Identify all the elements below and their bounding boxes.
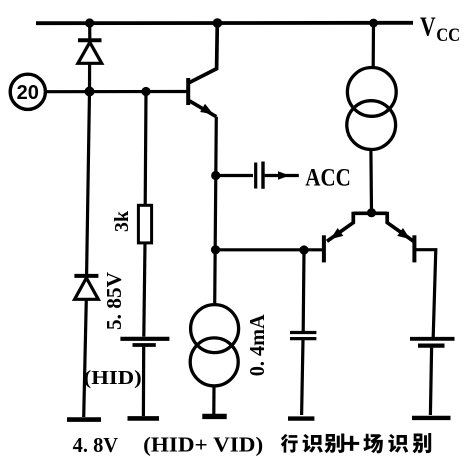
wire D1 to D2 bbox=[87, 63, 90, 274]
label char shi bbox=[303, 434, 323, 453]
node junction C2 branch bbox=[299, 245, 308, 254]
wire rail to current source I2 bbox=[372, 23, 375, 68]
node junction diff base tap bbox=[211, 245, 220, 254]
wire C1 to ACC with arrow bbox=[265, 171, 299, 179]
transistor Q3 emitter with arrow bbox=[387, 212, 413, 242]
node junction emitters bbox=[367, 208, 376, 217]
terminal pin 20 bbox=[10, 74, 45, 109]
svg-text:(HID): (HID) bbox=[84, 368, 142, 389]
resistor R1 3k bbox=[138, 205, 151, 243]
svg-text:V: V bbox=[420, 12, 436, 42]
current source I1 0.4mA bbox=[190, 305, 238, 386]
terminal bar bottom left bbox=[67, 417, 101, 422]
label char bie bbox=[325, 433, 345, 453]
transistor Q2 base bar bbox=[322, 235, 326, 262]
terminal bar below C2 bbox=[288, 416, 314, 420]
node junction at left column bbox=[85, 87, 95, 97]
svg-text:ACC: ACC bbox=[305, 165, 351, 192]
svg-text:20: 20 bbox=[17, 82, 39, 104]
capacitor C1 bbox=[256, 162, 263, 189]
wire to capacitor C1 bbox=[216, 174, 253, 177]
transistor Q2 emitter with arrow bbox=[327, 212, 353, 242]
wire C2 to bottom terminal bbox=[302, 340, 303, 415]
svg-text:5. 85V: 5. 85V bbox=[102, 272, 126, 330]
wire diff base tap to Q2 bbox=[216, 248, 323, 251]
battery B2 bbox=[410, 339, 455, 346]
wire node to capacitor C2 bbox=[302, 250, 306, 331]
svg-text:(HID+ VID): (HID+ VID) bbox=[143, 433, 263, 457]
label char shi 2 bbox=[388, 434, 408, 453]
svg-text:4. 8V: 4. 8V bbox=[73, 433, 119, 457]
wire I1 to ground bar bbox=[212, 386, 215, 414]
wire Q1 emitter down to current source I1 bbox=[215, 117, 217, 305]
label char chang bbox=[363, 434, 383, 454]
svg-text:3k: 3k bbox=[111, 210, 133, 232]
wire Q3 to battery B2 bbox=[416, 250, 436, 337]
node junction rail-current source bbox=[369, 19, 378, 28]
label char bie 2 bbox=[413, 433, 432, 453]
wire D2 to bottom terminal bbox=[84, 299, 87, 417]
terminal bar below I1 bbox=[202, 414, 226, 419]
wire base node down to resistor R1 bbox=[144, 92, 148, 206]
transistor Q1 collector bbox=[189, 23, 218, 83]
svg-text:0. 4mA: 0. 4mA bbox=[245, 314, 269, 377]
label plus sign bbox=[344, 436, 359, 451]
capacitor C2 bbox=[290, 333, 316, 339]
diff pair emitter bar bbox=[353, 211, 387, 215]
wire R1 to battery B1 bbox=[144, 243, 145, 337]
battery B1 5.85V bbox=[120, 339, 169, 345]
diode D2 bbox=[74, 276, 98, 299]
current source I2 bbox=[347, 68, 396, 150]
diode D1 bbox=[78, 40, 102, 63]
transistor Q1 base bar bbox=[186, 78, 190, 105]
terminal bar bottom battery bbox=[128, 416, 160, 421]
transistor Q3 base bar bbox=[412, 235, 416, 262]
wire B2 to bottom terminal bbox=[430, 348, 431, 415]
wire pin20 to base node bbox=[46, 90, 187, 93]
transistor Q1 emitter with arrow bbox=[189, 100, 217, 116]
label VCC bbox=[420, 12, 460, 47]
wire VCC top rail bbox=[36, 21, 413, 25]
wire rail to diode D1 bbox=[88, 23, 91, 39]
svg-text:CC: CC bbox=[436, 25, 460, 46]
node junction ACC tap bbox=[211, 171, 220, 180]
terminal bar below B2 bbox=[412, 416, 451, 420]
wire B1 to bottom terminal bbox=[142, 347, 146, 416]
node junction rail-left column bbox=[85, 18, 94, 27]
wire I2 to diff pair emitters bbox=[369, 149, 373, 212]
node junction at resistor branch bbox=[141, 87, 150, 96]
node junction rail-collector bbox=[213, 18, 223, 28]
label hang-shibie (line ident) char xing bbox=[281, 434, 298, 453]
